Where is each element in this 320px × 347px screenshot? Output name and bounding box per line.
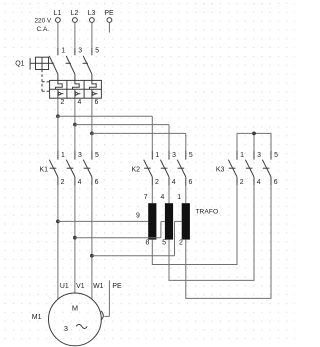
contactor K1 contact pole 5-6	[83, 151, 92, 186]
terminal L1 circle	[56, 18, 61, 23]
transformer pin label 5	[162, 239, 166, 246]
wire node phase 3 feeder to K2 pole 3	[92, 133, 186, 150]
svg-text:4: 4	[172, 179, 176, 186]
wire Q1 output 2 down to node	[57, 98, 59, 116]
terminal L2 circle	[73, 18, 78, 23]
contactor K1 pin label 4	[78, 179, 82, 186]
svg-text:K2: K2	[132, 166, 141, 173]
wire tap from W1 node to TRAFO bar 3	[92, 221, 182, 255]
motor M1 body circle	[49, 293, 102, 346]
svg-text:220 V: 220 V	[34, 17, 51, 24]
wire TRAFO 8 to K3 pole 2	[152, 186, 237, 265]
svg-text:3: 3	[257, 152, 261, 159]
svg-text:PE: PE	[104, 10, 114, 17]
contactor K3 pin label 2	[240, 179, 244, 186]
node junction dot V1 tap	[73, 236, 77, 240]
breaker Q1 manual actuator symbol	[30, 57, 48, 69]
wire node phase 2 feeder to K2 pole 2	[75, 125, 169, 151]
breaker Q1 thermal overload element pole 3	[90, 80, 97, 89]
wire node phase 1 down to K1 pole 1	[57, 116, 59, 150]
wire node phase 2 down to K1 pole 2	[74, 125, 76, 151]
contactor K1 pin label 2	[61, 179, 65, 186]
contactor K1 contact pole 1-2	[49, 151, 58, 186]
node junction dot phase 2	[73, 123, 77, 127]
wire TRAFO 5 to K3 pole 4	[169, 186, 254, 281]
svg-text:5: 5	[95, 48, 99, 55]
svg-text:1: 1	[61, 152, 65, 159]
svg-text:V1: V1	[76, 283, 85, 290]
breaker Q1 thermal overload element pole 1	[56, 80, 63, 89]
wire K1 output to motor U1	[57, 186, 59, 299]
breaker Q1 pin label 4	[78, 99, 82, 106]
breaker Q1 trip unit box	[50, 80, 102, 98]
svg-text:3: 3	[78, 152, 82, 159]
terminal L3 circle	[90, 18, 95, 23]
svg-text:2: 2	[61, 99, 65, 106]
svg-text:5: 5	[95, 152, 99, 159]
svg-text:5: 5	[274, 152, 278, 159]
label 220 V C.A. supply note	[34, 17, 51, 32]
svg-text:U1: U1	[60, 283, 69, 290]
contactor K1 pin label 1	[61, 152, 65, 159]
svg-text:6: 6	[95, 179, 99, 186]
svg-text:6: 6	[189, 179, 193, 186]
transformer pin label 7	[144, 194, 148, 201]
svg-text:3: 3	[64, 324, 68, 333]
breaker Q1 magnetic trip element pole 3	[92, 89, 98, 98]
svg-text:K3: K3	[216, 166, 225, 173]
contactor K1 pin label 5	[95, 152, 99, 159]
transformer pin label 2	[179, 239, 183, 246]
svg-text:M1: M1	[32, 314, 42, 321]
contactor K2 pin label 2	[155, 179, 159, 186]
contactor K3 designator label	[216, 166, 225, 173]
contactor K1 contact pole 3-4	[66, 151, 75, 186]
terminal PE label	[104, 10, 114, 17]
wire PE stub below terminal	[108, 22, 110, 32]
svg-text:3: 3	[172, 152, 176, 159]
contactor K3 pin label 3	[257, 152, 261, 159]
breaker Q1 pin label 1	[61, 48, 65, 55]
contactor K3 mechanical linkage dashes	[229, 167, 270, 169]
breaker Q1 pin label 3	[78, 48, 82, 55]
contactor K3 contact pole 1-2	[228, 151, 237, 186]
contactor K3 pin label 4	[257, 179, 261, 186]
breaker Q1 magnetic trip element pole 1	[58, 89, 64, 98]
contactor K3 pin label 5	[274, 152, 278, 159]
terminal PE circle	[107, 18, 112, 23]
svg-text:W1: W1	[93, 283, 104, 290]
svg-text:2: 2	[61, 179, 65, 186]
svg-text:Q1: Q1	[15, 61, 24, 68]
node junction dot U1 tap	[56, 220, 60, 224]
svg-text:2: 2	[179, 239, 183, 246]
svg-text:5: 5	[162, 239, 166, 246]
wire Q1 output 4 down to node	[74, 98, 76, 124]
wire K1 output to motor V1	[74, 186, 76, 293]
svg-text:4: 4	[78, 99, 82, 106]
wire node phase 3 down to K1 pole 3	[91, 133, 93, 150]
svg-text:PE: PE	[112, 283, 122, 290]
transformer pin label 8	[146, 239, 150, 246]
wire L2 terminal to Q1 pole	[74, 22, 76, 48]
contactor K3 pin label 6	[274, 179, 278, 186]
svg-text:2: 2	[240, 179, 244, 186]
contactor K1 pin label 6	[95, 179, 99, 186]
contactor K1 mechanical linkage dashes	[50, 167, 91, 169]
svg-text:9: 9	[136, 213, 140, 220]
svg-text:1: 1	[155, 152, 159, 159]
wire K2 output to TRAFO winding 1	[185, 186, 187, 203]
motor M1 terminal labels U1 V1 W1 PE	[60, 283, 122, 290]
wire K1 output to motor W1	[91, 186, 93, 299]
contactor K2 contact pole 1-2	[144, 151, 153, 186]
wire PE to motor frame	[104, 280, 109, 316]
transformer pin label 4	[160, 194, 164, 201]
contactor K2 pin label 4	[172, 179, 176, 186]
breaker Q1 mechanical linkage dashed lines	[42, 63, 88, 91]
contactor K3 contact pole 5-6	[262, 151, 271, 186]
terminal L2 label	[71, 10, 79, 17]
contactor K2 contact pole 5-6	[177, 151, 186, 186]
contactor K1 designator label	[40, 166, 49, 173]
svg-text:1: 1	[240, 152, 244, 159]
wire tap from V1 node to TRAFO bar 2	[75, 221, 165, 237]
contactor K2 designator label	[132, 166, 141, 173]
contactor K2 pin label 1	[155, 152, 159, 159]
breaker Q1 pin label 2	[61, 99, 65, 106]
svg-text:C.A.: C.A.	[37, 26, 50, 33]
wire node phase 1 feeder to K2 pole 1	[58, 116, 152, 150]
transformer tap pin label 9	[136, 213, 140, 220]
breaker Q1 pin label 6	[95, 99, 99, 106]
wire K2 output to TRAFO winding 7	[151, 186, 153, 203]
terminal L3 label	[88, 10, 96, 17]
breaker Q1 thermal overload element pole 2	[73, 80, 80, 89]
wire TRAFO 2 to K3 pole 6	[186, 186, 271, 299]
contactor K2 pin label 5	[189, 152, 193, 159]
svg-text:6: 6	[274, 179, 278, 186]
svg-text:4: 4	[257, 179, 261, 186]
breaker Q1 pole contact 5	[83, 48, 92, 80]
wire tap 9 from U1 node to TRAFO bar 1	[58, 220, 148, 222]
transformer TRAFO winding bar 7-8	[148, 203, 156, 239]
node junction dot phase 1	[56, 114, 60, 118]
transformer TRAFO label	[195, 208, 218, 215]
svg-text:7: 7	[144, 194, 148, 201]
breaker Q1 designator label	[15, 61, 24, 68]
svg-text:K1: K1	[40, 166, 49, 173]
contactor K2 pin label 6	[189, 179, 193, 186]
node junction dot on K3 bridge	[252, 132, 256, 136]
breaker Q1 pole contact 1	[49, 48, 58, 80]
wire Q1 output 6 down to node	[91, 98, 93, 133]
svg-text:8: 8	[146, 239, 150, 246]
transformer TRAFO winding bar 1-2	[182, 203, 190, 239]
svg-text:3: 3	[78, 48, 82, 55]
wire L3 terminal to Q1 pole	[91, 22, 93, 48]
motor M1 inner text M 3 phase	[64, 304, 78, 333]
svg-text:4: 4	[160, 194, 164, 201]
breaker Q1 pole contact 3	[66, 48, 75, 80]
node junction dot phase 3	[90, 132, 94, 136]
svg-text:6: 6	[95, 99, 99, 106]
wire K3 star bridge bar	[237, 133, 272, 150]
svg-text:5: 5	[189, 152, 193, 159]
breaker Q1 magnetic trip element pole 2	[75, 89, 81, 98]
terminal L1 label	[54, 10, 62, 17]
wire K2 output to TRAFO winding 4	[168, 186, 170, 203]
svg-text:1: 1	[177, 194, 181, 201]
node junction dot W1 tap	[90, 254, 94, 258]
contactor K2 contact pole 3-4	[160, 151, 169, 186]
breaker Q1 pin label 5	[95, 48, 99, 55]
contactor K3 contact pole 3-4	[245, 151, 254, 186]
contactor K2 mechanical linkage dashes	[144, 167, 184, 169]
transformer pin label 1	[177, 194, 181, 201]
contactor K3 pin label 1	[240, 152, 244, 159]
contactor K2 pin label 3	[172, 152, 176, 159]
svg-text:4: 4	[78, 179, 82, 186]
svg-text:M: M	[72, 304, 78, 313]
svg-text:TRAFO: TRAFO	[195, 208, 218, 215]
motor M1 PE terminal bracket	[101, 311, 103, 320]
svg-text:L2: L2	[71, 10, 79, 17]
motor M1 sine symbol	[76, 324, 87, 328]
motor M1 designator label	[32, 314, 42, 321]
wire L1 terminal to Q1 pole	[57, 22, 59, 48]
svg-text:L1: L1	[54, 10, 62, 17]
contactor K1 pin label 3	[78, 152, 82, 159]
transformer TRAFO winding bar 4-5	[165, 203, 173, 239]
svg-text:2: 2	[155, 179, 159, 186]
svg-text:L3: L3	[88, 10, 96, 17]
svg-text:1: 1	[61, 48, 65, 55]
